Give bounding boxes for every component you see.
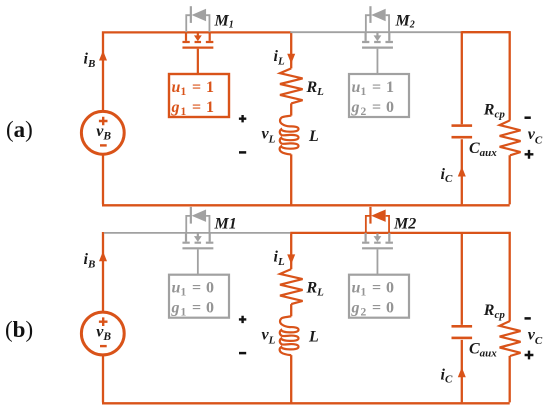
svg-text:M1: M1 bbox=[214, 216, 237, 233]
svg-text:Rcp: Rcp bbox=[483, 302, 506, 321]
svg-text:iC: iC bbox=[441, 166, 453, 185]
svg-text:iB: iB bbox=[84, 50, 96, 70]
svg-text:g1=0: g1=0 bbox=[171, 300, 215, 319]
svg-text:u1=0: u1=0 bbox=[352, 280, 395, 299]
svg-text:iC: iC bbox=[441, 367, 453, 386]
svg-text:vC: vC bbox=[528, 327, 543, 348]
svg-text:M2: M2 bbox=[393, 216, 416, 233]
svg-text:g1=1: g1=1 bbox=[171, 99, 215, 118]
svg-text:iB: iB bbox=[84, 251, 96, 271]
svg-text:iL: iL bbox=[274, 48, 285, 68]
svg-text:vC: vC bbox=[528, 126, 543, 147]
svg-text:Caux: Caux bbox=[469, 140, 497, 159]
svg-text:M2: M2 bbox=[395, 13, 415, 31]
svg-text:u1=1: u1=1 bbox=[352, 79, 395, 98]
svg-text:L: L bbox=[308, 128, 319, 145]
svg-text:(a): (a) bbox=[6, 117, 33, 142]
svg-text:iL: iL bbox=[274, 249, 285, 269]
svg-text:RL: RL bbox=[306, 79, 325, 98]
svg-text:Caux: Caux bbox=[469, 341, 497, 360]
svg-text:Rcp: Rcp bbox=[483, 102, 506, 121]
svg-text:RL: RL bbox=[306, 280, 325, 299]
svg-text:vL: vL bbox=[262, 326, 276, 346]
svg-text:g2=0: g2=0 bbox=[351, 99, 395, 118]
svg-text:vB: vB bbox=[96, 324, 111, 344]
svg-text:L: L bbox=[308, 329, 319, 346]
svg-text:M1: M1 bbox=[214, 13, 234, 31]
svg-text:vL: vL bbox=[262, 126, 276, 146]
svg-text:(b): (b) bbox=[5, 317, 33, 342]
svg-text:u1=0: u1=0 bbox=[172, 280, 215, 299]
svg-text:vB: vB bbox=[96, 123, 111, 143]
svg-text:u1=1: u1=1 bbox=[172, 79, 215, 98]
svg-text:g2=0: g2=0 bbox=[351, 300, 395, 319]
